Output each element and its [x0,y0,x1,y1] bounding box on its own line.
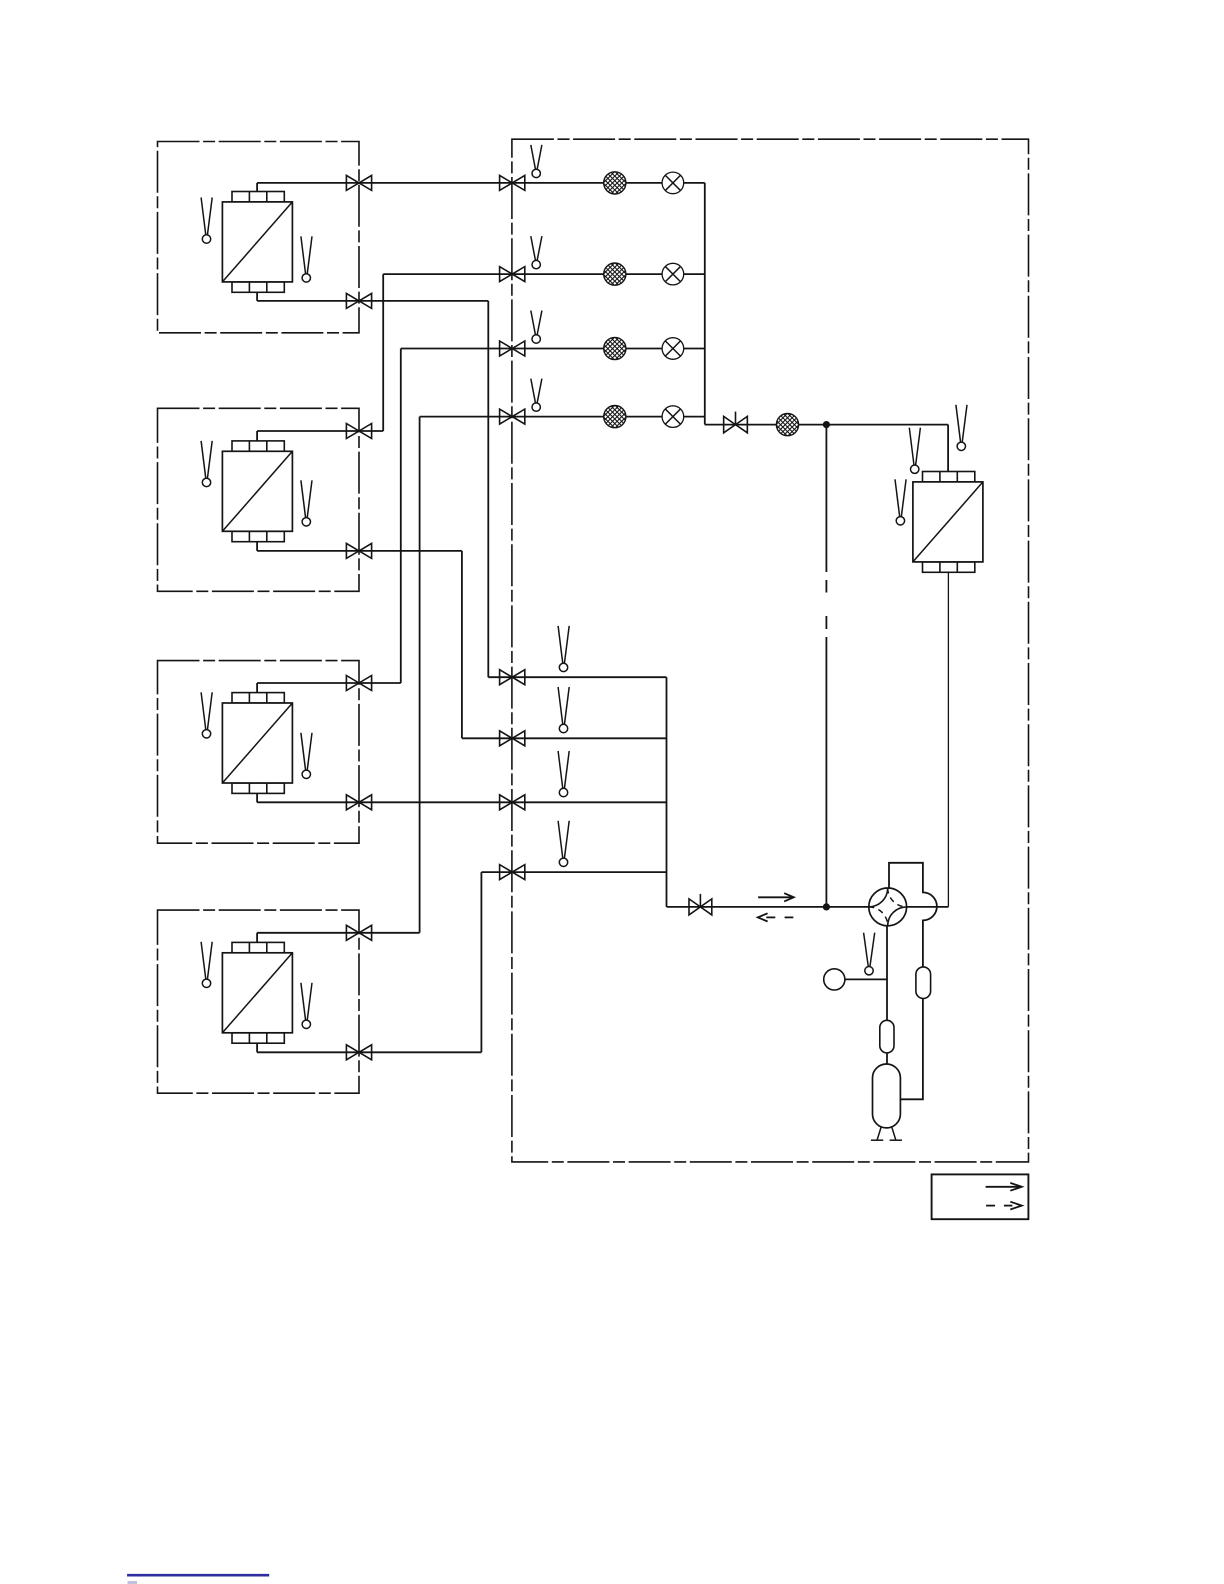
wire: riser indoor3-top to valve V3 [400,349,402,684]
outdoor coil thermistor (upper) [909,428,920,474]
strainer branch 4 [599,385,631,445]
legend cooling arrow (solid) [986,1183,1022,1191]
wire: four-way valve bottom port to compressor suction [886,926,888,1066]
wire: indoor unit 2 top pipe stub [256,431,258,441]
outdoor liquid-branch joint V4 [500,409,525,424]
outdoor gas-branch joint V7 [500,795,525,810]
electronic expansion valve branch 3 [662,338,684,360]
wire: indoor unit 1 bottom line [257,300,488,302]
electronic expansion valve branch 2 [662,263,684,285]
indoor unit 3 gas-side flare joint [346,676,371,691]
strainer branch 2 [599,242,631,302]
indoor unit 4 liquid-side flare joint [346,1045,371,1060]
wire: indoor unit 2 bottom line [257,550,462,552]
wire: riser indoor4-bottom to valve V8 [480,872,482,1052]
indoor unit 1 heat exchanger [222,192,292,293]
indoor unit 1 enclosure [158,142,360,333]
liquid branch 4 thermistor [531,379,542,412]
wire: indoor unit 1 gas line to outdoor valve V1, strainer, EEV, liquid header [257,182,705,184]
outdoor gas-branch joint V6 [500,731,525,746]
wire: riser indoor4-top to valve V4 [419,417,421,933]
wire: liquid header [704,183,706,425]
gas branch 1 thermistor [558,626,569,672]
wire: indoor unit 1 bottom pipe stub [256,292,258,301]
wire: indoor unit 4 bottom line [257,1051,481,1053]
wire: riser indoor2-top to valve V2 [382,274,384,431]
strainer branch 1 [599,151,631,211]
gas branch 2 thermistor [558,687,569,733]
outdoor air thermistor [956,405,967,451]
indoor unit 3 coil thermistor [301,733,312,779]
wire: riser indoor2-bottom to valve V6 [461,551,463,738]
wire: compressor discharge riser with crossover hop [889,863,937,1100]
liquid branch 3 thermistor [531,311,542,344]
indoor unit 2 room thermistor [201,441,212,487]
indoor unit 3 liquid-side flare joint [346,795,371,810]
indoor unit 2 liquid-side flare joint [346,543,371,558]
wire: indoor unit 2 top line [257,430,383,432]
wire: indoor unit 4 bottom pipe stub [256,1043,258,1052]
wire: riser indoor1-bottom to valve V5 [487,301,489,677]
indoor unit 3 heat exchanger [222,693,292,794]
discharge pipe thermistor [864,933,875,975]
node: gas-side junction [823,903,830,910]
wire: four-way valve right port to outdoor HX bottom pipe [907,906,949,908]
liquid branch 2 thermistor [531,236,542,269]
outdoor heat exchanger [913,472,983,573]
page footer link text remnant [128,1581,138,1584]
liquid branch 1 thermistor [531,145,542,178]
wire: liquid main line to outdoor heat exchanger [705,424,948,426]
liquid main strainer [772,393,804,453]
wire: valve V8 branch line [481,871,666,873]
outdoor unit enclosure [512,139,1029,1162]
indoor unit 4 enclosure [158,910,360,1093]
electronic expansion valve branch 4 [662,406,684,428]
legend heating arrow (dashed) [986,1202,1022,1210]
wire: junction connector (broken line) [825,425,827,572]
wire: valve V4 branch line [420,416,705,418]
wire: valve V2 branch line [383,273,705,275]
wire: indoor unit 3 top pipe stub [256,683,258,693]
indoor unit 1 coil thermistor [301,236,312,282]
indoor unit 1 liquid-side flare joint [346,293,371,308]
outdoor liquid-branch joint V1 [500,175,525,190]
wire: indoor unit 3 bottom line through valve V7 to gas header [257,801,666,803]
wire: indoor unit 4 top pipe stub [256,933,258,943]
outdoor gas-branch joint V5 [500,670,525,685]
indoor unit 3 enclosure [158,661,360,844]
wire: indoor unit 2 bottom pipe stub [256,542,258,551]
indoor unit 4 room thermistor [201,942,212,988]
electronic expansion valve branch 1 [662,172,684,194]
wire: outdoor HX bottom pipe [947,572,949,907]
outdoor coil thermistor (lower) [895,479,906,525]
wire: pressure switch tap line [845,978,887,980]
gas line stop valve [689,894,712,915]
high pressure switch [824,969,845,990]
indoor unit 2 coil thermistor [301,480,312,526]
gas branch 3 thermistor [558,751,569,797]
outdoor liquid-branch joint V3 [500,341,525,356]
strainer branch 3 [599,317,631,377]
discharge muffler [916,967,931,999]
indoor unit 4 heat exchanger [222,942,292,1043]
wire: indoor unit 4 top line [257,932,420,934]
wire: valve V5 branch line [488,676,666,678]
outdoor gas-branch joint V8 [500,865,525,880]
wire: valve V6 branch line [462,737,667,739]
indoor unit 2 heat exchanger [222,441,292,542]
wire: indoor unit 3 bottom pipe stub [256,793,258,802]
liquid line stop valve [724,412,748,433]
indoor unit 4 gas-side flare joint [346,925,371,940]
wire: liquid main drop into outdoor heat exchanger [947,425,949,472]
suction muffler [880,1020,894,1053]
compressor [871,1064,902,1140]
wire: indoor unit 3 top line [257,682,401,684]
cooling flow arrow (solid, rightward) [758,893,794,901]
wire: gas header [666,677,668,907]
four-way valve [869,888,907,926]
indoor unit 1 room thermistor [201,198,212,244]
indoor unit 1 gas-side flare joint [346,175,371,190]
wire: valve V3 branch line [401,348,705,350]
node: liquid-side junction [823,421,830,428]
gas branch 4 thermistor [558,821,569,867]
heating flow arrow (dashed, leftward) [758,913,794,921]
legend box [932,1174,1029,1219]
outdoor liquid-branch joint V2 [500,267,525,282]
wire: indoor unit 1 top pipe stub [256,183,258,192]
wire: gas main line to four-way valve [667,906,869,908]
indoor unit 3 room thermistor [201,692,212,738]
indoor unit 2 gas-side flare joint [346,424,371,439]
indoor unit 2 enclosure [158,408,360,591]
indoor unit 4 coil thermistor [301,983,312,1029]
page footer link line [127,1574,269,1577]
